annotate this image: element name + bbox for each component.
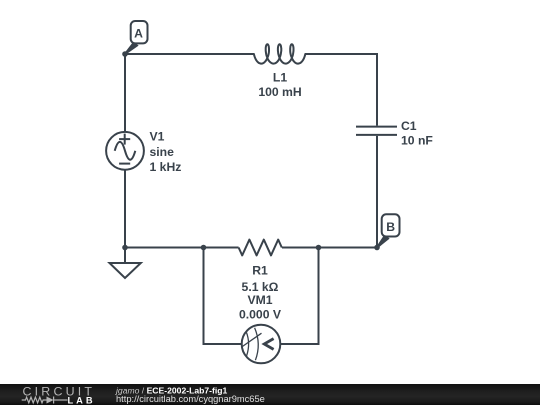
V1 minus sign xyxy=(119,163,130,165)
svg-text:sine: sine xyxy=(150,145,175,159)
node B flag box xyxy=(382,214,400,236)
svg-text:VM1: VM1 xyxy=(247,293,272,307)
V1 plus sign xyxy=(119,134,130,145)
ground symbol triangle xyxy=(110,263,141,278)
wire node A to inductor xyxy=(125,53,254,55)
svg-text:100 mH: 100 mH xyxy=(258,85,301,99)
junction dot node B xyxy=(374,245,380,251)
wire C1 to node B xyxy=(376,136,378,248)
wire left junction down to voltmeter xyxy=(204,248,242,345)
wire node A down to V1 xyxy=(124,54,126,132)
wire left junction to ground node xyxy=(125,247,204,249)
svg-text:10 nF: 10 nF xyxy=(401,134,433,148)
wire resistor to left junction xyxy=(204,247,239,249)
svg-text:R1: R1 xyxy=(252,264,268,278)
svg-text:http://circuitlab.com/cyqgnar9: http://circuitlab.com/cyqgnar9mc65e xyxy=(116,394,265,404)
voltage source V1 circle xyxy=(106,132,144,170)
voltmeter scale arc 2 xyxy=(255,328,259,360)
junction dot ground node xyxy=(122,245,128,251)
flag A tail xyxy=(124,41,138,55)
resistor R1 zigzag xyxy=(239,240,282,256)
footer logo wire with resistor and diode xyxy=(22,397,68,404)
svg-text:V1: V1 xyxy=(150,130,165,144)
voltmeter needle xyxy=(242,333,261,346)
V1 sine symbol xyxy=(115,142,136,160)
footer logo diode triangle xyxy=(47,397,54,404)
flag B tail xyxy=(376,234,389,248)
svg-text:1 kHz: 1 kHz xyxy=(150,160,182,174)
svg-text:0.000 V: 0.000 V xyxy=(239,308,282,322)
wire node B to right junction xyxy=(319,247,378,249)
svg-text:A: A xyxy=(134,26,143,40)
voltmeter scale arc 1 xyxy=(246,332,248,356)
svg-text:LAB: LAB xyxy=(68,396,96,405)
wire right junction to resistor xyxy=(282,247,319,249)
wire voltmeter to right junction xyxy=(280,248,318,345)
node A flag box xyxy=(131,21,148,43)
wire inductor to top-right corner and down to C1 xyxy=(305,54,377,126)
inductor L1 coil xyxy=(254,44,305,63)
junction dot node A xyxy=(122,51,128,57)
svg-text:C1: C1 xyxy=(401,119,417,133)
capacitor C1 plates xyxy=(356,127,397,135)
voltmeter VM1 circle xyxy=(242,325,281,364)
ground stub wire xyxy=(124,248,126,264)
svg-text:B: B xyxy=(386,220,395,234)
junction dot right xyxy=(316,245,322,251)
voltmeter arrow glyph xyxy=(264,339,273,350)
junction dot left xyxy=(201,245,207,251)
svg-text:L1: L1 xyxy=(273,71,287,85)
wire V1 to bottom-left node xyxy=(124,170,126,248)
